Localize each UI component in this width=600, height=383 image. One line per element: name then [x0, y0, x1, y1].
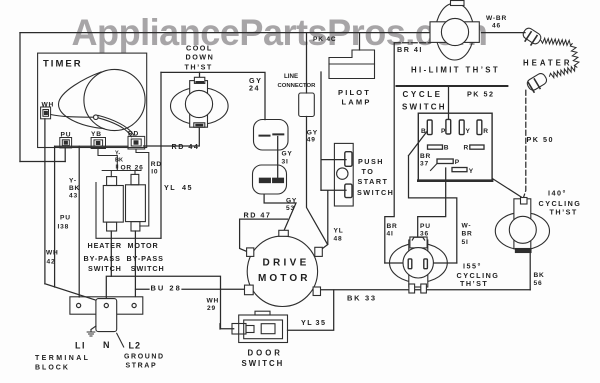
wire: door switch left stub tick [219, 324, 221, 329]
svg-text:BK: BK [69, 185, 80, 192]
wire: heater by-pass switch lower lead drop [110, 231, 112, 276]
cycle switch slot P [446, 119, 451, 134]
thermostat: 140 cycling th'st [495, 198, 549, 253]
cycle switch bar B [428, 145, 443, 149]
svg-text:R: R [464, 145, 470, 152]
svg-text:GROUND: GROUND [124, 354, 165, 361]
svg-text:YL: YL [334, 227, 344, 234]
wire: cool-down thermostat top lead [199, 72, 201, 78]
svg-text:Y: Y [466, 128, 471, 135]
svg-text:HEATER: HEATER [523, 58, 572, 67]
svg-text:4I: 4I [387, 231, 394, 238]
svg-text:RD: RD [151, 161, 162, 168]
svg-text:BU 28: BU 28 [151, 283, 182, 292]
svg-text:RD: RD [128, 131, 139, 138]
heater connector upper [520, 26, 542, 47]
wire GY 53 fuse to motor [264, 195, 296, 231]
svg-text:Y-: Y- [115, 151, 120, 157]
svg-text:L2: L2 [129, 341, 142, 351]
svg-text:WH: WH [207, 298, 220, 305]
svg-text:STRAP: STRAP [126, 363, 158, 370]
line connector J1 [299, 93, 315, 117]
svg-text:II: II [116, 165, 120, 171]
terminal PU [60, 138, 72, 148]
thermal fuse F2 [253, 165, 287, 194]
svg-text:TH’ST: TH’ST [550, 207, 578, 216]
svg-text:MOTOR: MOTOR [258, 273, 311, 284]
wire GY 31 fuse link [277, 137, 279, 180]
svg-text:3I: 3I [282, 158, 289, 165]
wire: motor by-pass switch lower lead drop to L2 [134, 231, 136, 297]
terminal RD [128, 136, 145, 149]
wire RD 10 [136, 149, 149, 226]
svg-text:DRIVE: DRIVE [263, 258, 310, 269]
wire BR 41 top dashed corner [394, 42, 430, 44]
timer main circle [84, 69, 145, 130]
svg-text:YB: YB [91, 131, 102, 138]
svg-text:49: 49 [307, 137, 316, 144]
wire WH 42 diagonal to N [45, 284, 106, 304]
svg-text:48: 48 [334, 235, 343, 242]
cycle switch slot R [477, 120, 482, 135]
svg-text:HI-LIMIT TH’ST: HI-LIMIT TH’ST [411, 65, 500, 74]
cycle switch slot B [427, 120, 432, 135]
wire BK 56 [529, 253, 531, 290]
door switch S3 [232, 311, 288, 342]
svg-text:YL: YL [164, 183, 176, 192]
svg-text:TO: TO [362, 167, 375, 176]
wire: left border down [19, 33, 21, 162]
svg-text:DOWN: DOWN [186, 53, 215, 62]
wire RD 44 [144, 127, 200, 146]
wire: top line right segment to heater [482, 32, 526, 34]
cycle switch bar Y [452, 168, 467, 172]
svg-text:BR: BR [420, 153, 431, 160]
wire GY 49 below line connector [307, 117, 328, 245]
wire: pilot lamp to push-to-start switch [321, 72, 346, 190]
wire BU 28 [136, 288, 245, 290]
svg-text:CONNECTOR: CONNECTOR [278, 83, 317, 89]
svg-text:BK 33: BK 33 [347, 294, 377, 303]
heater connector lower [526, 72, 549, 93]
wire PU 138 vertical [54, 146, 56, 287]
svg-text:BK: BK [115, 158, 123, 164]
svg-text:29: 29 [207, 305, 216, 312]
timer follower arm to RD [98, 115, 134, 136]
svg-text:PILOT: PILOT [338, 88, 371, 97]
wire: main top line L1 feed [20, 32, 430, 34]
svg-text:COOL: COOL [186, 44, 213, 53]
svg-text:BR 4I: BR 4I [397, 45, 423, 54]
drive motor M1 [245, 230, 323, 306]
svg-text:W-BR: W-BR [486, 15, 507, 22]
thermostat: hi-limit th'st [430, 1, 479, 61]
wire: cycle switch B diagonal / W-BR 51 run [409, 131, 457, 263]
svg-text:B: B [421, 128, 427, 135]
thermostat: 155 cycling th'st [390, 237, 448, 293]
svg-text:37: 37 [420, 161, 429, 168]
svg-text:START: START [358, 177, 389, 186]
svg-text:24: 24 [249, 84, 260, 93]
svg-text:PU: PU [60, 214, 71, 221]
svg-text:PK 4C: PK 4C [313, 36, 336, 43]
terminal block TB1 [70, 297, 143, 332]
timer cam follower pivot [94, 115, 99, 120]
motor by-pass switch S5 [126, 174, 146, 231]
svg-text:MOTOR: MOTOR [128, 241, 159, 250]
svg-text:Y: Y [469, 168, 474, 175]
svg-text:42: 42 [47, 258, 56, 265]
wire PK 50 dashed [524, 90, 526, 197]
svg-text:BY-PASS: BY-PASS [84, 254, 121, 263]
svg-text:OR 26: OR 26 [121, 165, 144, 172]
wire RD 47 [240, 219, 288, 252]
svg-text:I40°: I40° [548, 189, 567, 198]
svg-text:WH: WH [46, 249, 59, 256]
svg-text:I55°: I55° [463, 261, 482, 270]
wire Y-BK 43 vertical to L1 [78, 146, 80, 297]
svg-text:GY: GY [286, 198, 297, 205]
cycle switch S1 box [418, 113, 492, 181]
thermostat: cool down th'st [171, 77, 229, 127]
svg-text:YL: YL [301, 318, 313, 327]
svg-text:SWITCH: SWITCH [357, 188, 394, 197]
svg-text:P: P [441, 128, 446, 135]
svg-text:BLOCK: BLOCK [35, 365, 70, 372]
push to start switch S2 [334, 143, 353, 206]
timer TM1 box [38, 53, 147, 147]
svg-text:46: 46 [492, 23, 501, 30]
wire: YB to by-pass switches [98, 149, 141, 176]
svg-text:BR: BR [462, 231, 473, 238]
wire WH 29 neutral run [106, 276, 233, 328]
pilot lamp DS1 [329, 50, 375, 79]
svg-text:BY-PASS: BY-PASS [127, 254, 164, 263]
wire: ground strap pointer [117, 333, 124, 347]
heater by-pass switch S4 [103, 177, 123, 231]
svg-text:RD 44: RD 44 [172, 142, 200, 151]
svg-text:SWITCH: SWITCH [88, 264, 122, 273]
cycle switch bar P [431, 159, 454, 171]
svg-text:N: N [103, 340, 110, 350]
svg-text:PK 52: PK 52 [467, 89, 494, 98]
svg-text:BR: BR [387, 223, 398, 230]
wire: timer terminal row [55, 145, 128, 147]
wire: pilot lamp tab to top line [359, 33, 361, 50]
svg-text:TH’ST: TH’ST [185, 62, 213, 71]
svg-text:35: 35 [316, 318, 327, 327]
wire: cycle switch P slot drop from PK52 [448, 86, 450, 119]
svg-text:B: B [444, 145, 450, 152]
svg-text:RD 47: RD 47 [244, 211, 272, 220]
wire WH 42 vertical [44, 119, 46, 284]
terminal YB [91, 138, 105, 149]
svg-text:SWITCH: SWITCH [242, 359, 285, 368]
svg-text:PUSH: PUSH [358, 157, 384, 166]
wire YL 35 door switch to motor [288, 290, 334, 330]
svg-text:SWITCH: SWITCH [131, 264, 165, 273]
ground symbol [87, 326, 96, 336]
svg-text:WH: WH [42, 102, 55, 109]
heater element R1 zigzag [541, 38, 579, 77]
svg-text:Y-: Y- [69, 177, 77, 184]
svg-text:GY: GY [307, 130, 318, 137]
svg-text:CYCLE: CYCLE [403, 90, 443, 99]
wire: 155 thermostat right lead [434, 262, 457, 264]
svg-text:BK: BK [534, 272, 545, 279]
svg-text:PU: PU [420, 223, 431, 230]
svg-text:36: 36 [420, 231, 429, 238]
wire YL 45 vertical [160, 72, 162, 238]
wire: lower-left horizontal to PU [20, 161, 65, 163]
thermal fuse (heater) F1 [254, 120, 289, 151]
svg-text:PU: PU [61, 132, 72, 139]
svg-text:I0: I0 [151, 169, 158, 176]
svg-text:R: R [483, 128, 489, 135]
svg-text:HEATER: HEATER [88, 241, 122, 250]
timer cam follower link [51, 115, 94, 118]
svg-text:53: 53 [286, 205, 295, 212]
wire: cycle switch to 140 thermostat diagonal [493, 179, 525, 199]
wire: line connector drop from top line [306, 33, 308, 93]
wire BR 41 lower run [385, 43, 394, 263]
wire BK 33 [321, 289, 530, 291]
wire GY 24 [161, 72, 265, 119]
wire PK 52 bus [397, 85, 508, 87]
svg-text:DOOR: DOOR [248, 349, 283, 358]
cycle switch slot Y [459, 120, 464, 135]
svg-text:5I: 5I [462, 239, 469, 246]
svg-text:SWITCH: SWITCH [402, 103, 447, 112]
svg-text:W-: W- [462, 223, 472, 230]
svg-text:GY: GY [282, 151, 293, 158]
timer cam teardrop [58, 72, 104, 129]
wire PU 36 [418, 168, 446, 238]
svg-text:TERMINAL: TERMINAL [35, 355, 90, 362]
heater by-pass switch S4 assembly box [96, 183, 161, 239]
svg-text:TH’ST: TH’ST [460, 279, 488, 288]
terminal WH [41, 107, 51, 119]
wire: riser into timer PU terminal [64, 148, 66, 162]
svg-text:TIMER: TIMER [43, 59, 83, 70]
cycle switch bar R [470, 145, 484, 149]
svg-text:43: 43 [69, 193, 78, 200]
svg-text:P: P [455, 159, 460, 166]
wire YL 48 push-to-start to motor [319, 190, 347, 251]
svg-text:I38: I38 [58, 224, 70, 231]
svg-text:56: 56 [534, 280, 543, 287]
svg-text:LINE: LINE [284, 73, 298, 80]
svg-text:PK 50: PK 50 [527, 135, 554, 144]
svg-text:45: 45 [182, 183, 193, 192]
svg-text:LAMP: LAMP [342, 97, 372, 106]
wire: 155 thermostat left lead [385, 262, 404, 264]
svg-text:LI: LI [75, 341, 86, 351]
